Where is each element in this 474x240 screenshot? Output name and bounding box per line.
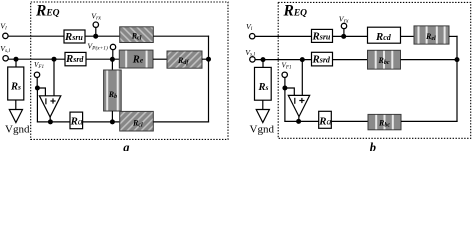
- wire feedback down (a): [36, 88, 38, 122]
- resistor Rsru (b): [312, 29, 333, 42]
- resistor Rbc lower striped (b): [368, 114, 401, 129]
- node right bus junction (b): [455, 57, 460, 62]
- label Vrx (a): [91, 12, 101, 22]
- wire plus input (b): [301, 60, 303, 96]
- wire minus jog to op-amp input (a): [37, 88, 45, 96]
- terminal Vl (b): [250, 34, 255, 39]
- wire Vrx stub (a): [95, 28, 97, 37]
- label Vrx (b): [339, 15, 349, 25]
- label Vl (a): [0, 22, 7, 32]
- wire junction to Rs (b): [262, 60, 264, 68]
- wire Rsru to Rcl (a): [85, 35, 120, 37]
- wire Rcl to right bus (a): [153, 35, 209, 37]
- svg-text:Ra: Ra: [318, 115, 331, 127]
- resistor Re striped (a): [119, 50, 153, 68]
- wire bottom row feedback to Ra (a): [37, 121, 70, 123]
- wire feedback down (b): [284, 88, 286, 122]
- resistor Rsru (a): [64, 30, 85, 43]
- equivalent resistance boundary box REQ (b): [278, 2, 471, 138]
- svg-text:Rcd: Rcd: [375, 31, 392, 43]
- node op-amp plus junction (b): [300, 57, 305, 62]
- node VP(x+1) junction (a): [110, 57, 115, 62]
- ground symbol (b): [256, 110, 269, 123]
- resistor Rcd (b): [368, 27, 401, 43]
- svg-text:Re: Re: [132, 55, 144, 66]
- svg-text:a: a: [123, 141, 129, 151]
- wire Rsrd to Re (a): [86, 58, 120, 60]
- wire VP(x+1) stub (a): [112, 50, 114, 59]
- label REQ (a): [35, 2, 60, 19]
- wire Vrx stub (b): [343, 29, 345, 37]
- wire op-amp output stub (b): [298, 116, 300, 121]
- svg-text:Rsrd: Rsrd: [312, 53, 331, 65]
- wire Vl to Rsru (b): [255, 35, 312, 37]
- wire Rbc to right bus (b): [401, 59, 458, 61]
- wire Rel to right bus (b): [449, 35, 458, 37]
- svg-text:Rs: Rs: [258, 82, 269, 93]
- svg-text:Rs: Rs: [10, 82, 21, 93]
- resistor Rbc striped (b): [368, 50, 401, 69]
- resistor Rel striped (b): [414, 26, 449, 44]
- terminal Vl (a): [3, 33, 8, 38]
- resistor Rsrd (a): [65, 52, 86, 65]
- wire plus input (a): [53, 59, 55, 96]
- node op-amp minus junction (a): [35, 86, 40, 91]
- node op-amp output junction (b): [296, 119, 301, 124]
- svg-text:Vgnd: Vgnd: [5, 123, 30, 135]
- wire Vsl to Rsrd (b): [255, 59, 311, 61]
- label VP(x+1) (a): [87, 42, 108, 52]
- svg-text:Rsru: Rsru: [312, 30, 331, 42]
- terminal Vsl (a): [3, 56, 8, 61]
- svg-text:Ra: Ra: [70, 116, 83, 128]
- svg-text:Rsru: Rsru: [64, 31, 83, 43]
- wire Re to Rdf (a): [153, 58, 167, 60]
- wire Rbc lower to right bus (b): [401, 120, 458, 122]
- wire VP(x+1) to Rb (a): [111, 59, 113, 70]
- wire Vl to Rsru (a): [8, 35, 64, 37]
- terminal Vrx (a): [93, 22, 98, 27]
- resistor Rcl upper hatched (a): [120, 27, 154, 43]
- resistor Ra (b): [318, 111, 331, 128]
- wire Rs to ground (a): [15, 100, 17, 110]
- wire Vsl to Rsrd (a): [8, 58, 65, 60]
- label a: [123, 141, 129, 155]
- resistor Rdf hatched (a): [167, 51, 202, 68]
- label Vgnd (b): [250, 123, 275, 135]
- svg-text:b: b: [370, 141, 376, 151]
- node Vrx junction (a): [93, 34, 98, 39]
- wire VF1 to minus node (b): [284, 78, 286, 88]
- wire Rsru to Rcd (b): [333, 35, 368, 37]
- label VF1 (b): [282, 62, 293, 71]
- wire Rcl lower to right bus (a): [153, 121, 209, 123]
- terminal Vsl (b): [250, 57, 255, 62]
- node Rs junction (a): [14, 57, 19, 62]
- wire junction to Rs (a): [15, 59, 17, 67]
- wire Rsrd to Rbc (b): [333, 59, 368, 61]
- node op-amp plus junction (a): [52, 57, 57, 62]
- wire VF1 to minus node (a): [36, 78, 38, 88]
- equivalent resistance boundary box REQ (a): [31, 2, 228, 139]
- wire bottom row feedback to Ra (b): [284, 120, 318, 122]
- resistor Rs (b): [255, 67, 272, 100]
- node Rb bottom junction (a): [110, 119, 115, 124]
- label b: [370, 141, 376, 155]
- resistor Rs (a): [8, 67, 24, 100]
- wire Rdf to right bus (a): [202, 58, 209, 60]
- node right bus junction (a): [206, 57, 211, 62]
- label Vgnd (a): [5, 123, 30, 135]
- resistor Rcl lower hatched (a): [120, 111, 154, 131]
- wire op-amp output stub (a): [49, 117, 51, 122]
- terminal VF1 (a): [34, 72, 39, 77]
- label Vl (b): [246, 22, 253, 32]
- right bus wire (a): [208, 36, 210, 123]
- wire Ra to Rcl lower (a): [83, 121, 120, 123]
- terminal VF1 (b): [282, 72, 287, 77]
- label Vsl (b): [245, 48, 255, 58]
- node Vrx junction (b): [341, 34, 346, 39]
- wire minus jog to op-amp input (b): [285, 88, 294, 95]
- label Vsl (a): [0, 44, 10, 54]
- resistor Ra (a): [70, 112, 83, 129]
- node op-amp output junction (a): [48, 119, 53, 124]
- wire Ra to Rbc lower (b): [331, 120, 368, 122]
- svg-text:Rsrd: Rsrd: [65, 53, 84, 65]
- op-amp U1 (a): [39, 96, 60, 117]
- terminal Vrx (b): [341, 23, 346, 28]
- wire Rcd to Rel (b): [401, 35, 415, 37]
- resistor Rsrd (b): [312, 52, 333, 66]
- wire Rs to ground (b): [262, 100, 264, 109]
- wire Rb to bottom row (a): [111, 111, 113, 122]
- node op-amp minus junction (b): [282, 86, 287, 91]
- terminal VP(x+1) (a): [110, 44, 115, 49]
- resistor Rb striped vertical (a): [104, 70, 122, 111]
- label REQ (b): [283, 2, 308, 19]
- right bus wire (b): [456, 36, 458, 122]
- node Rs junction (b): [261, 57, 266, 62]
- svg-text:Vgnd: Vgnd: [250, 123, 275, 135]
- label VF1 (a): [34, 61, 45, 70]
- op-amp U2 (b): [288, 95, 309, 116]
- ground symbol (a): [9, 110, 22, 123]
